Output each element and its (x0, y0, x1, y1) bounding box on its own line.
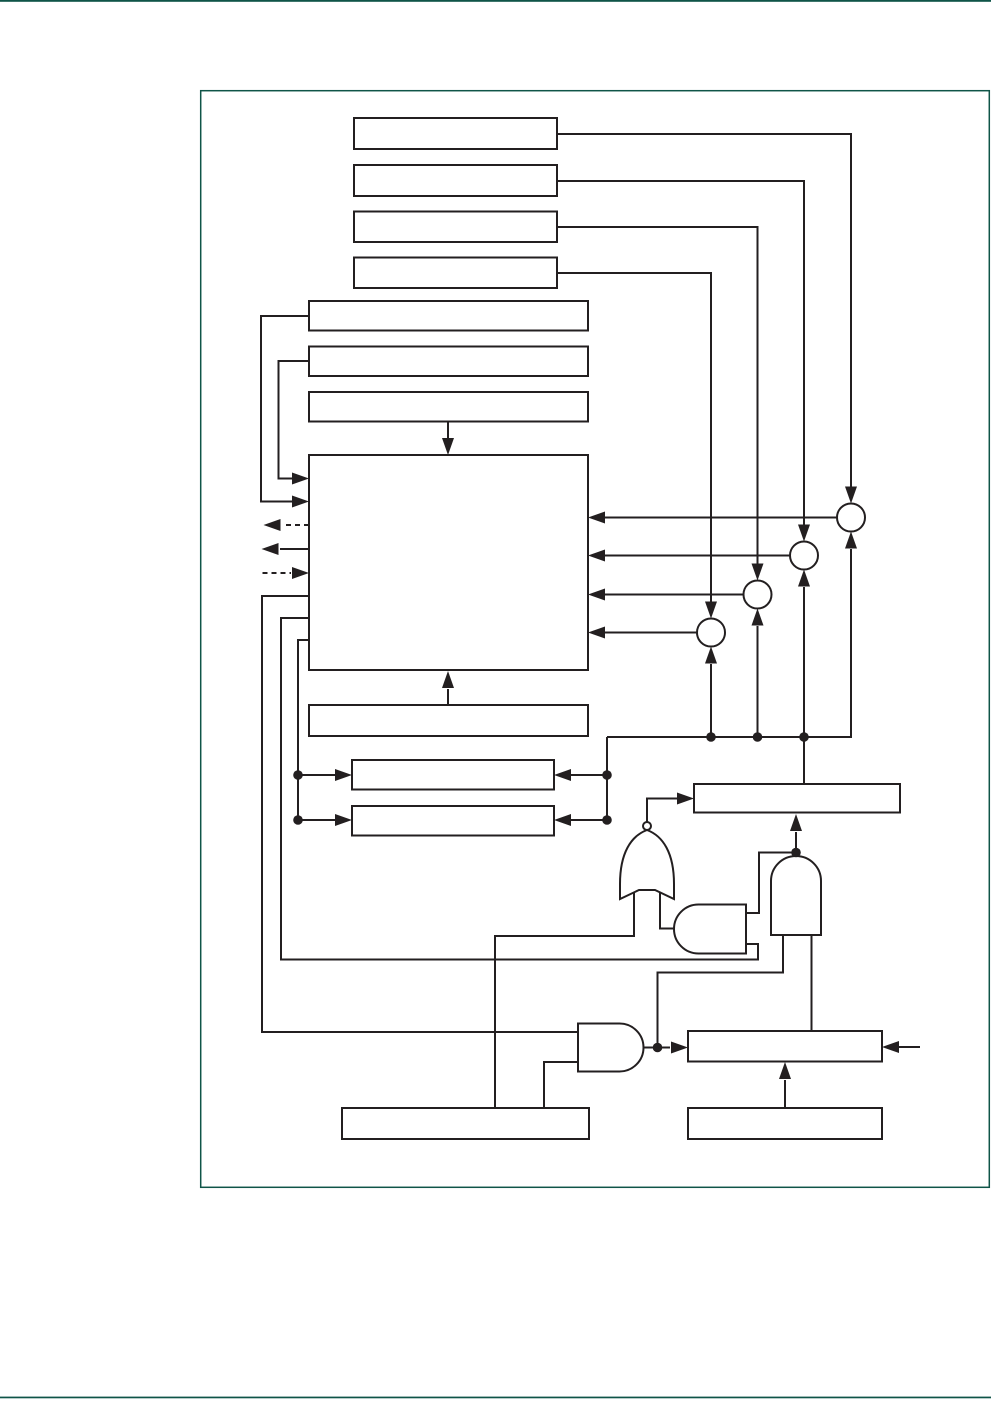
register box D (354, 258, 557, 289)
arrowhead left into box J right (554, 814, 571, 826)
wire box E to main block (261, 316, 309, 502)
register box M (688, 1108, 882, 1139)
wire NOR output to box K (647, 799, 677, 823)
wire main block to AND3 upper input (262, 596, 578, 1032)
arrowhead up into box K bottom (790, 814, 802, 831)
arrowhead right into box J left (335, 814, 352, 826)
wire B to sync circle 2 (557, 181, 804, 525)
wire D to sync circle 4 (557, 273, 711, 602)
drop wire to IJ arrows (606, 737, 608, 820)
arrowhead down into main block top (442, 438, 454, 455)
arrowhead right into box K left (677, 793, 694, 805)
junction dot bus x757 (753, 732, 763, 742)
junction dot left J (293, 815, 303, 825)
sync circle 4 (697, 619, 725, 647)
junction dot right I (602, 770, 612, 780)
arrowhead down into circle1 (845, 487, 857, 504)
register box I (352, 760, 554, 790)
arrowhead left into box I right (554, 769, 571, 781)
wire circle1 to main block (604, 517, 837, 519)
wire AND3 output to box L (644, 1047, 671, 1049)
junction dot bus x804 (799, 732, 809, 742)
arrowhead right into main block y478 (292, 473, 309, 485)
wire NOR left input from box N (495, 893, 634, 1108)
wire input into box L right (899, 1046, 920, 1048)
arrowhead left into main block y632 (588, 627, 605, 639)
AND gate U3 up-pointing (771, 856, 821, 935)
wire AND1 upper input from junction (746, 853, 792, 914)
register box E (309, 301, 588, 331)
figure frame (201, 91, 990, 1188)
register box L (688, 1031, 882, 1062)
arrowhead left into main block y517 (588, 512, 605, 524)
arrowhead left into main block y555 (588, 550, 605, 562)
wire into box I left (298, 774, 336, 776)
arrowhead right into box L left (671, 1042, 688, 1054)
register box N (342, 1108, 589, 1139)
junction dot left I (293, 770, 303, 780)
wire AND3 lower input from box N (544, 1062, 578, 1108)
register box F (309, 347, 588, 377)
page top rule (0, 0, 991, 2)
arrowhead left into box L right (882, 1041, 899, 1053)
wire main block to IJ left arrows (298, 640, 309, 820)
register box C (354, 212, 557, 243)
wire AND2 right input from box L (811, 935, 813, 1031)
arrowhead down into circle3 (752, 564, 764, 581)
NOR gate U1 (620, 830, 674, 899)
arrowhead up into circle2 (798, 570, 810, 587)
wire NOR right input from AND1 output (660, 893, 675, 929)
arrowhead left dashed stub (264, 519, 281, 531)
arrowhead up into circle3 (752, 609, 764, 626)
wire box H up to main block (447, 689, 449, 705)
arrowhead up into box L bottom (779, 1062, 791, 1079)
AND gate U2 left-pointing (674, 905, 746, 954)
solid output stub (280, 548, 309, 550)
arrowhead down into circle2 (798, 525, 810, 542)
sync circle 2 (790, 542, 818, 570)
register box J (352, 806, 554, 836)
arrowhead right dashed stub (292, 567, 309, 579)
wire box F to main block (279, 361, 310, 479)
NOR gate U1 bubble (643, 822, 651, 830)
register box G (309, 392, 588, 422)
riser wire to circle2 and drop to box K (803, 587, 805, 784)
register box A (354, 118, 557, 149)
sync circle 3 (744, 581, 772, 609)
AND gate U4 right-pointing (578, 1024, 644, 1072)
wire circle2 to main block (604, 555, 791, 557)
wire into box I right (571, 774, 607, 776)
arrowhead up into circle1 (845, 532, 857, 549)
register box K (694, 784, 900, 813)
sync circle 1 (837, 504, 865, 532)
wire box M up to box L (784, 1080, 786, 1108)
arrowhead left into main block y594 (588, 589, 605, 601)
riser wire to circle4 (710, 664, 712, 737)
wire box G down to main block (447, 421, 449, 438)
register box B (354, 165, 557, 196)
wire AND2 left input from AND3 output junction (658, 935, 784, 1043)
junction dot AND2 output (791, 848, 801, 858)
dashed input stub (263, 572, 292, 574)
wire circle4 to main block (604, 632, 698, 634)
wire main block to AND1 lower input (281, 618, 758, 960)
junction dot bus x711 (706, 732, 716, 742)
wire A to sync circle 1 (557, 134, 851, 487)
arrowhead down into circle4 (705, 602, 717, 619)
arrowhead left solid stub (262, 543, 279, 555)
junction dot right J (602, 815, 612, 825)
register box H (309, 705, 588, 736)
wire circle3 to main block (604, 594, 744, 596)
arrowhead right into box I left (335, 769, 352, 781)
wire into box J left (298, 819, 336, 821)
page bottom rule (0, 1397, 991, 1399)
arrowhead up into main block bottom (442, 671, 454, 688)
bus wire with riser to circle1 (607, 549, 851, 737)
dashed output stub (282, 524, 309, 526)
arrowhead right into main block y501 (292, 496, 309, 508)
wire junction up to box K (795, 832, 797, 853)
wire into box J right (571, 819, 607, 821)
riser wire to circle3 (757, 626, 759, 737)
main block (309, 455, 588, 670)
junction dot AND3 output (653, 1043, 663, 1053)
wire C to sync circle 3 (557, 227, 758, 564)
arrowhead up into circle4 (705, 647, 717, 664)
